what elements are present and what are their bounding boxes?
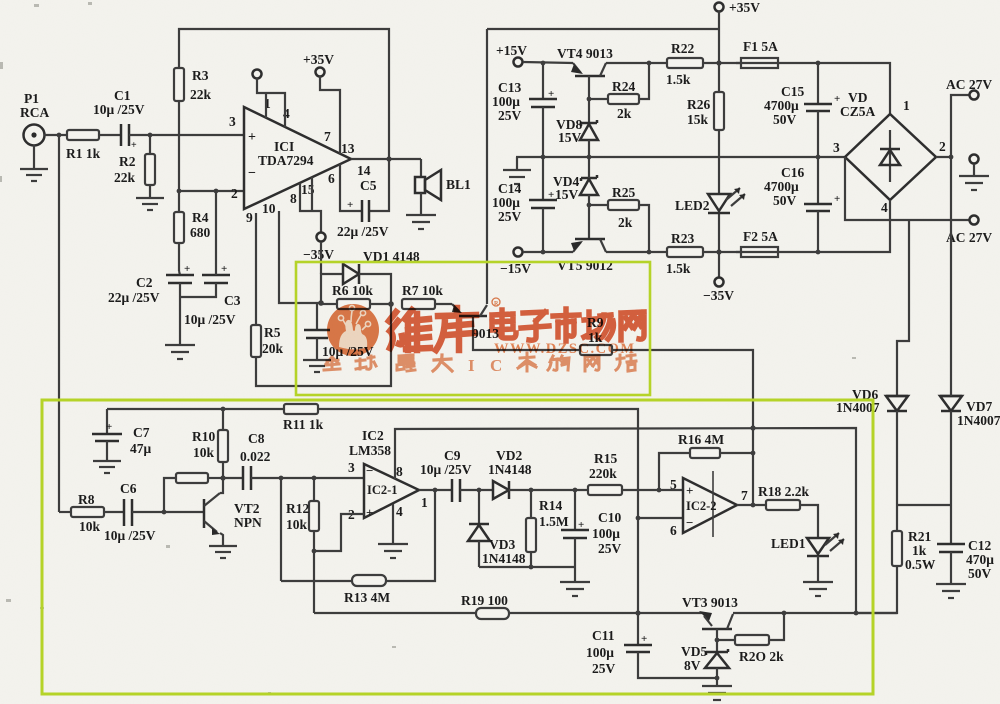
node VD5 C11 (715, 676, 720, 681)
wire R4 to C2 (179, 243, 180, 275)
wire R21 bottom to row (856, 566, 897, 613)
wire -35V stem down (320, 242, 322, 274)
wire VT3 collector row (733, 612, 897, 614)
node pin6 rail (636, 516, 641, 521)
svg-text:50V: 50V (773, 193, 797, 208)
capacitor C5 loop pin6 (340, 159, 389, 211)
node R25 collector (647, 250, 652, 255)
terminal +35V supply (715, 0, 761, 15)
capacitor C5 (337, 178, 389, 239)
svg-text:0.022: 0.022 (240, 449, 271, 464)
resistor R21 (892, 529, 936, 572)
wire C8 to IC2 pin3 (251, 477, 364, 479)
watermark slogan zui (397, 355, 415, 371)
resistor R25 (589, 185, 649, 252)
svg-text:VD5: VD5 (681, 644, 707, 659)
svg-text:IC2: IC2 (362, 428, 384, 443)
svg-text:+35V: +35V (303, 52, 334, 67)
svg-text:3: 3 (348, 460, 355, 475)
node pin2 R12 (312, 549, 317, 554)
resistor R3 (174, 68, 212, 102)
zener VD5 (681, 644, 729, 686)
resistor R19 (461, 593, 509, 619)
terminal AC27V bottom (946, 216, 992, 246)
wire VD6 branch (897, 220, 909, 396)
wire reference row (314, 612, 703, 614)
resistor R22 (666, 41, 741, 87)
svg-text:C2: C2 (136, 275, 153, 290)
svg-text:IC2-1: IC2-1 (367, 483, 398, 497)
wire VD4 stems (588, 157, 590, 240)
svg-text:VD3: VD3 (489, 537, 515, 552)
ground under VD5 (702, 686, 732, 700)
node C14 bottom (541, 250, 546, 255)
highlight box watermark area (296, 262, 650, 395)
svg-text:R21: R21 (908, 529, 931, 544)
svg-text:BL1: BL1 (446, 177, 471, 192)
transistor VT3 9013 (682, 595, 738, 629)
svg-text:C3: C3 (224, 293, 241, 308)
svg-text:3: 3 (229, 114, 236, 129)
svg-text:470μ: 470μ (966, 552, 994, 567)
ground under R2 (136, 185, 164, 210)
capacitor C1 (93, 88, 145, 151)
watermark logo circle (327, 304, 379, 356)
node base feedback (162, 510, 167, 515)
diode VD7 (940, 396, 1000, 428)
svg-text:50V: 50V (773, 112, 797, 127)
wire node up to VD1 (321, 274, 343, 303)
svg-text:TDA7294: TDA7294 (258, 153, 314, 168)
svg-text:100μ: 100μ (586, 645, 614, 660)
terminal -15V (500, 248, 531, 277)
svg-text:+: + (106, 421, 112, 433)
svg-text:LED2: LED2 (675, 198, 710, 213)
wire +35V rail top (718, 11, 720, 92)
svg-text:AC 27V: AC 27V (946, 77, 992, 92)
svg-text:+: + (548, 88, 554, 100)
svg-text:1.5M: 1.5M (539, 514, 569, 529)
resistor R1 (66, 130, 101, 161)
svg-text:3: 3 (833, 140, 840, 155)
zener VD4 (553, 174, 598, 202)
svg-text:R14: R14 (539, 498, 562, 513)
svg-text:50V: 50V (968, 566, 992, 581)
resistor R16 (659, 432, 753, 490)
wire pin7 supply (320, 76, 340, 154)
svg-text:10k: 10k (79, 519, 101, 534)
svg-text:WWW.DZSC.COM: WWW.DZSC.COM (494, 341, 636, 357)
connector P1 RCA (20, 91, 49, 146)
svg-text:VT3 9013: VT3 9013 (682, 595, 738, 610)
ground under C12 (936, 584, 966, 598)
wire R13 left leg (280, 478, 282, 581)
watermark slogan zhan (616, 355, 636, 371)
terminal chassis mid (970, 155, 979, 164)
wire (129, 134, 244, 136)
svg-text:−35V: −35V (703, 288, 734, 303)
svg-text:R8: R8 (78, 492, 95, 507)
watermark char dian (492, 310, 516, 338)
wire pins 15 8 to -35V (300, 177, 321, 232)
wire R15 to pin5 (622, 489, 683, 491)
svg-text:15V: 15V (558, 130, 582, 145)
svg-text:+: + (578, 519, 584, 531)
watermark slogan quan (324, 357, 340, 370)
wire bridge ac3 down (845, 157, 969, 220)
svg-text:R19 100: R19 100 (461, 593, 508, 608)
wire F1 to bridge (783, 63, 890, 114)
svg-text:680: 680 (190, 225, 211, 240)
transistor VT5 9012 (557, 239, 613, 273)
svg-text:1N4007: 1N4007 (957, 413, 1000, 428)
svg-text:8: 8 (396, 464, 403, 479)
wire long vertical to R8 (58, 135, 60, 512)
svg-text:C1: C1 (114, 88, 131, 103)
node C11 rail (635, 610, 640, 615)
wire pin8 supply (395, 428, 856, 613)
svg-text:4: 4 (881, 200, 888, 215)
svg-text:0.5W: 0.5W (905, 557, 936, 572)
svg-text:+: + (131, 140, 137, 151)
svg-text:R7 10k: R7 10k (402, 283, 443, 298)
wire pin10 down to node (279, 211, 321, 303)
capacitor C15 (764, 63, 840, 157)
watermark slogan da (433, 355, 452, 371)
wire +35V rail through R26 LED2 (718, 130, 720, 277)
node mid VD (587, 155, 592, 160)
capacitor C13 (492, 63, 557, 157)
wire C2 to ground (179, 283, 181, 345)
node rail R23 F2 (716, 249, 721, 254)
watermark slogan gou (548, 356, 569, 370)
watermark slogan C (490, 356, 502, 375)
wire R5 bottom loop (256, 304, 391, 386)
node collector C8 (220, 475, 225, 480)
svg-text:2: 2 (231, 186, 238, 201)
wire VT5 collector row (606, 251, 667, 253)
svg-text:R26: R26 (687, 97, 710, 112)
svg-text:+: + (548, 189, 554, 201)
node R24 collector (647, 61, 652, 66)
speaker BL1 (415, 159, 471, 200)
node output (386, 156, 391, 161)
svg-text:15k: 15k (687, 112, 709, 127)
resistor R24 (589, 63, 649, 121)
capacitor C9 (420, 448, 472, 502)
watermark char wang (621, 312, 644, 340)
wire bridge minus stem (889, 200, 891, 220)
wire VT4 base down (588, 76, 590, 123)
svg-text:−: − (366, 463, 373, 478)
resistor R23 (666, 231, 741, 276)
svg-text:R1 1k: R1 1k (66, 146, 101, 161)
svg-text:22k: 22k (114, 170, 136, 185)
ground mid supply (503, 157, 531, 184)
node C13 bottom (541, 155, 546, 160)
svg-text:C10: C10 (598, 510, 621, 525)
svg-text:R23: R23 (671, 231, 694, 246)
watermark char chang (584, 312, 613, 339)
ground under C2 (165, 345, 195, 359)
svg-text:C8: C8 (248, 431, 265, 446)
wire IC2-2 output (737, 504, 766, 506)
svg-text:R4: R4 (192, 210, 209, 225)
svg-text:+: + (366, 505, 373, 520)
svg-text:6: 6 (670, 523, 677, 538)
svg-text:15V: 15V (555, 187, 579, 202)
wire F2 to bridge minus (783, 220, 890, 252)
svg-text:7: 7 (741, 488, 748, 503)
node VD3 tap (477, 488, 482, 493)
svg-text:14: 14 (357, 163, 371, 178)
svg-text:+35V: +35V (729, 0, 760, 15)
node R10 top (221, 407, 226, 412)
svg-text:7: 7 (324, 129, 331, 144)
svg-text:10k: 10k (193, 445, 215, 460)
svg-text:C11: C11 (592, 628, 615, 643)
wire C6 to VT2 base (132, 511, 204, 513)
resistor feedback small (164, 473, 223, 512)
svg-text:C14: C14 (498, 181, 521, 196)
wire VT3 base down (716, 629, 718, 652)
resistor R14 (526, 490, 569, 567)
node C13 top (541, 61, 546, 66)
svg-text:R2O 2k: R2O 2k (739, 649, 784, 664)
wire pin6 (638, 517, 683, 519)
LED LED1 (771, 533, 844, 556)
svg-text:F1 5A: F1 5A (743, 39, 778, 54)
wire top rail to VT1 (487, 28, 719, 30)
watermark char shi (553, 309, 579, 341)
svg-text:22μ /25V: 22μ /25V (337, 224, 389, 239)
wire R11 to down rail (318, 409, 638, 645)
wire VD3 R14 C10 bottoms (479, 566, 575, 568)
node R14 bottom (529, 565, 534, 570)
svg-text:10μ /25V: 10μ /25V (93, 102, 145, 117)
node R14 top (529, 488, 534, 493)
terminal +15V (496, 43, 527, 67)
svg-text:1: 1 (903, 98, 910, 113)
svg-text:R22: R22 (671, 41, 694, 56)
node base R24 (587, 97, 592, 102)
fuse F1 (736, 39, 783, 68)
node R6 R7 (388, 301, 394, 307)
svg-text:22k: 22k (190, 87, 212, 102)
svg-text:C6: C6 (120, 481, 137, 496)
watermark char ku (436, 308, 476, 350)
svg-text:R25: R25 (612, 185, 635, 200)
node R16 tap (657, 488, 662, 493)
capacitor C12 (937, 538, 994, 584)
svg-text:+: + (221, 263, 227, 275)
svg-text:+: + (248, 130, 256, 145)
svg-text:VT5 9012: VT5 9012 (557, 258, 613, 273)
svg-text:+15V: +15V (496, 43, 527, 58)
svg-text:R18 2.2k: R18 2.2k (758, 484, 809, 499)
svg-text:LED1: LED1 (771, 536, 806, 551)
svg-text:−: − (248, 166, 256, 181)
svg-text:−: − (686, 515, 693, 530)
capacitor C7 (92, 409, 152, 461)
svg-text:+: + (641, 633, 647, 645)
svg-text:VT2: VT2 (234, 501, 260, 516)
capacitor C16 (764, 157, 840, 252)
svg-text:F2 5A: F2 5A (743, 229, 778, 244)
node R2 tap (148, 133, 153, 138)
svg-text:R15: R15 (594, 451, 617, 466)
watermark slogan cai (518, 353, 536, 371)
svg-text:10k: 10k (286, 517, 308, 532)
svg-text:C13: C13 (498, 80, 521, 95)
svg-text:2k: 2k (618, 215, 633, 230)
svg-text:220k: 220k (589, 466, 617, 481)
wire (99, 134, 121, 136)
wire output node (351, 158, 421, 160)
node VT3 R20 right (782, 611, 787, 616)
svg-text:AC 27V: AC 27V (946, 230, 992, 245)
terminal -35V IC1 (303, 233, 334, 263)
capacitor C10 (561, 490, 622, 567)
wire VD1 to right node (359, 274, 391, 304)
ground under C7 (93, 461, 121, 473)
svg-text:C5: C5 (360, 178, 377, 193)
svg-text:+: + (184, 263, 190, 275)
wire IC2-1 output (419, 489, 452, 491)
ground under BL1 (406, 193, 436, 229)
svg-text:C9: C9 (444, 448, 461, 463)
wire input row (44, 134, 67, 136)
wire C3 top to pin2 row (215, 191, 217, 275)
node base R20 (715, 638, 720, 643)
capacitor C6 (104, 481, 156, 543)
svg-text:CZ5A: CZ5A (840, 104, 876, 119)
svg-text:1N4148: 1N4148 (488, 462, 532, 477)
resistor R26 (687, 92, 724, 130)
wire -15V row (523, 251, 573, 253)
terminal -35V supply (703, 278, 734, 304)
ground under VT2 (209, 546, 237, 558)
terminal AC27V top (946, 77, 992, 100)
node C15 top (816, 61, 821, 66)
node C16 bottom (816, 250, 821, 255)
svg-text:R12: R12 (286, 501, 309, 516)
resistor R15 (588, 451, 622, 495)
transistor VT4 9013 (557, 46, 613, 76)
svg-text:9: 9 (246, 210, 253, 225)
svg-text:100μ: 100μ (592, 526, 620, 541)
wire R9 right to comparator (612, 350, 753, 505)
wire pin9 to R5 (255, 213, 257, 325)
svg-text:+: + (686, 483, 693, 498)
node base R25 (587, 203, 592, 208)
svg-text:VD: VD (848, 90, 868, 105)
ground under C10 (560, 567, 590, 596)
svg-text:R6 10k: R6 10k (332, 283, 373, 298)
ground under LED1 (803, 556, 833, 596)
terminal stby open circle (253, 70, 262, 79)
watermark reg mark (492, 298, 500, 307)
svg-text:VD7: VD7 (966, 399, 992, 414)
wire bridge ac2 to AC terminal (936, 95, 969, 157)
svg-text:13: 13 (341, 141, 355, 156)
wire VT4 collector row (606, 62, 667, 64)
op-amp IC2-2 (670, 471, 748, 538)
resistor R12 (286, 478, 319, 613)
svg-text:4700μ: 4700μ (764, 98, 799, 113)
svg-text:25V: 25V (598, 541, 622, 556)
node row856 (854, 611, 859, 616)
svg-text:5: 5 (670, 477, 677, 492)
svg-text:1.5k: 1.5k (666, 72, 691, 87)
svg-text:P1: P1 (24, 91, 39, 106)
svg-text:R3: R3 (192, 68, 209, 83)
capacitor C8 (223, 431, 271, 490)
svg-text:100μ: 100μ (492, 195, 520, 210)
zener VD8 (556, 117, 598, 145)
wire R21 C12 tie (897, 504, 951, 506)
svg-text:LM358: LM358 (349, 443, 391, 458)
svg-text:C7: C7 (133, 425, 150, 440)
svg-text:4: 4 (396, 504, 403, 519)
wire pin2 row (179, 190, 244, 192)
resistor R20 (717, 613, 784, 664)
svg-text:+: + (347, 199, 353, 211)
node input tap (57, 133, 62, 138)
resistor R6 (321, 283, 391, 309)
svg-text:10μ /25V: 10μ /25V (104, 528, 156, 543)
capacitor C11 (586, 628, 717, 678)
svg-text:1N4148: 1N4148 (482, 551, 526, 566)
wire VT2 emitter (220, 533, 223, 546)
svg-text:25V: 25V (592, 661, 616, 676)
wire VD2 out row (509, 489, 588, 491)
node ac2 vd7 (949, 155, 954, 160)
wire VD6 to R21 (896, 411, 898, 531)
svg-text:2k: 2k (617, 106, 632, 121)
svg-text:C: C (490, 356, 502, 375)
wire R18 to LED1 (800, 505, 818, 538)
node C15 C16 mid (816, 155, 821, 160)
capacitor C14 (492, 157, 557, 252)
node rail R22 F1 (716, 60, 721, 65)
fuse F2 (736, 229, 783, 257)
svg-text:R: R (494, 301, 499, 307)
svg-text:VT4 9013: VT4 9013 (557, 46, 613, 61)
wire top rail of protection circuit (107, 408, 284, 410)
diode VD3 (468, 490, 526, 567)
node R12 branch (312, 476, 317, 481)
wire +15V row (523, 62, 573, 63)
svg-text:VD2: VD2 (496, 448, 522, 463)
watermark slogan I (468, 356, 475, 375)
svg-text:NPN: NPN (234, 515, 262, 530)
resistor R2 (114, 135, 155, 185)
node R16 right (751, 451, 756, 456)
resistor R13 (281, 490, 435, 605)
svg-text:IC2-2: IC2-2 (686, 499, 717, 513)
terminal +35V IC1 (303, 52, 334, 77)
svg-text:8: 8 (290, 191, 297, 206)
wire R3 bottom to pin2 node (178, 101, 180, 212)
svg-text:25V: 25V (498, 108, 522, 123)
svg-text:1: 1 (421, 495, 428, 510)
ground chassis (959, 164, 989, 190)
resistor R8 (59, 492, 124, 534)
wire C3 bottom jog to C2 (180, 283, 216, 297)
svg-text:8V: 8V (684, 658, 701, 673)
svg-text:R2: R2 (119, 154, 136, 169)
